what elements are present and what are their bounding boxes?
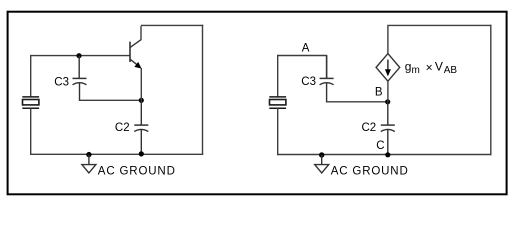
svg-text:gm: gm <box>405 59 420 76</box>
node junction: C2 bottom on ground rail <box>139 151 144 156</box>
capacitor C2 <box>134 100 148 154</box>
wire: right circuit top rail <box>387 24 491 26</box>
crystal Y1 <box>22 97 39 108</box>
wire: right circuit bottom rail <box>277 154 492 156</box>
wire: left circuit left rail lower segment <box>30 108 32 155</box>
svg-text:C: C <box>376 140 384 152</box>
crystal Y2 <box>269 97 286 108</box>
node junction: base / C3 top <box>76 53 81 58</box>
label gm x VAB <box>405 59 458 76</box>
current source U1 (gm * VAB) <box>376 54 400 82</box>
wire: node B horizontal wire <box>327 101 388 103</box>
wire: left circuit top rail (collector net) <box>141 24 203 26</box>
node junction: ground tap left <box>86 152 91 157</box>
ground: AC ground symbol left <box>82 155 96 173</box>
node junction: emitter / C3 / C2 <box>139 98 144 103</box>
wire: current source top lead <box>387 25 389 53</box>
svg-text:C2: C2 <box>362 122 377 134</box>
node junction: ground tap right <box>319 152 324 157</box>
svg-text:C3: C3 <box>54 77 69 89</box>
svg-text:AC GROUND: AC GROUND <box>331 166 409 178</box>
wire: left circuit top wire (base net) <box>31 55 130 57</box>
svg-text:AC GROUND: AC GROUND <box>98 166 176 178</box>
wire: right circuit left rail upper segment <box>277 55 279 97</box>
capacitor C2 right <box>381 102 395 155</box>
wire: emitter vertical <box>140 68 142 100</box>
capacitor C3 right <box>320 56 334 103</box>
svg-text:C2: C2 <box>115 122 130 134</box>
svg-text:B: B <box>375 87 383 99</box>
wire: left circuit left rail upper segment <box>30 55 32 97</box>
svg-text:×: × <box>426 61 433 75</box>
transistor Q1 <box>130 40 142 69</box>
svg-text:VAB: VAB <box>435 59 457 76</box>
svg-text:A: A <box>302 42 310 54</box>
wire: collector vertical <box>140 26 142 40</box>
wire: left circuit right rail <box>202 25 204 155</box>
wire: right circuit left rail lower segment <box>277 108 279 155</box>
wire: C3 bottom to emitter net <box>80 99 142 101</box>
wire: left circuit bottom rail <box>30 153 203 155</box>
node junction C <box>385 152 390 157</box>
wire: right circuit right rail <box>490 25 492 156</box>
wire: right circuit node A wire <box>278 56 327 79</box>
wire: current source bottom lead <box>387 81 389 102</box>
capacitor C3 <box>73 56 87 101</box>
node junction B <box>385 99 390 104</box>
svg-text:C3: C3 <box>301 76 316 88</box>
ground: AC ground symbol right <box>315 155 329 173</box>
